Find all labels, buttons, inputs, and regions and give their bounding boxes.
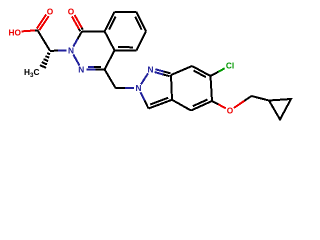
svg-text:Cl: Cl	[226, 60, 234, 70]
bond C8a-C8 (aromatic)	[105, 12, 115, 31]
bond C1-C8a	[82, 30, 105, 32]
cyclopropane ring	[269, 99, 291, 120]
bond CH2-cyclopropane	[252, 96, 270, 101]
bond C7a-C7 indazole	[171, 66, 192, 75]
double bond C3=C3a indazole	[149, 100, 173, 109]
double bond C=O (acid)	[37, 15, 46, 29]
svg-text:HO: HO	[9, 27, 22, 37]
svg-text:N: N	[148, 64, 154, 74]
bond C5-C4a (aromatic)	[115, 49, 137, 51]
double bond N3=C4	[86, 69, 95, 71]
bond N2-N1 indazole	[141, 73, 148, 84]
bond C4-C3a indazole	[172, 100, 191, 111]
bond C(carboxyl)-CH	[38, 30, 51, 51]
hashed wedge CH-CH3	[47, 53, 50, 54]
bond C7-C6 (aromatic)	[137, 12, 147, 31]
bond C4-CH2	[105, 70, 116, 89]
double bond C1=O	[79, 29, 80, 31]
bond CH-N2	[50, 50, 58, 52]
bond C7a-C3a (fusion)	[171, 75, 172, 100]
double bond N1=C7a indazole	[155, 69, 163, 71]
svg-text:N: N	[136, 83, 142, 93]
svg-text:O: O	[227, 106, 234, 116]
bond CH2-N2 indazole	[116, 87, 125, 89]
bond C6-Cl	[211, 72, 219, 76]
bond N2-N3	[73, 55, 79, 66]
bond C5-C4 indazole (aromatic)	[191, 101, 212, 111]
svg-text:N: N	[78, 65, 84, 75]
bond C5-O ether	[212, 101, 218, 104]
bond O-CH2 cyclopropylmethyl	[234, 101, 245, 108]
svg-text:O: O	[47, 6, 54, 16]
bond C6-C5	[137, 31, 147, 50]
bond C6-C5 indazole	[211, 76, 213, 101]
bond HO-C(carboxyl)	[22, 30, 36, 31]
bond C8-C7	[115, 11, 137, 13]
bond N2-C3 indazole	[141, 92, 145, 100]
bond C4-C4a	[105, 50, 115, 69]
bond C8a-C4a (fusion)	[105, 31, 115, 50]
svg-text:N: N	[68, 45, 74, 55]
bond N2-C1	[73, 39, 77, 47]
svg-text:H3C: H3C	[24, 67, 39, 79]
svg-text:O: O	[68, 7, 75, 17]
bond C7-C6 indazole (aromatic)	[192, 66, 211, 76]
